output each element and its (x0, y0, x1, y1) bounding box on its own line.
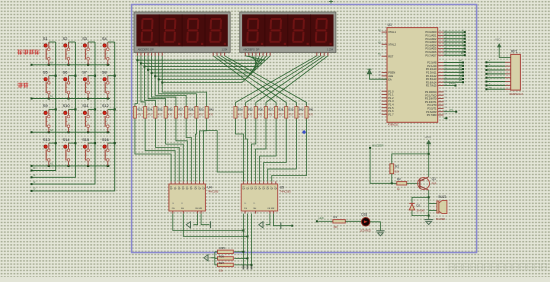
resistor R36 (segment bank B) (254, 107, 263, 119)
svg-text:buzzer: buzzer (449, 82, 456, 85)
push button S6 (63, 70, 76, 99)
svg-text:BUZZER: BUZZER (372, 143, 383, 147)
svg-text:R33: R33 (137, 108, 142, 112)
svg-text:LED-RED: LED-RED (360, 230, 371, 233)
push button S3 (82, 36, 95, 65)
svg-text:R39: R39 (199, 108, 204, 112)
resistor R36 (segment bank A) (164, 107, 173, 119)
no-connect marker (blue diamond) (302, 130, 306, 134)
svg-text:VCC: VCC (495, 39, 500, 42)
svg-text:S16: S16 (102, 137, 109, 142)
IC U4 74HC595 (169, 181, 219, 213)
svg-text:R34: R34 (238, 108, 243, 112)
microcontroller U1 AT89C51 (387, 23, 438, 127)
resistor R34 (segment bank B) (234, 107, 243, 119)
svg-text:S15: S15 (82, 137, 89, 142)
wire: flyback branch (412, 197, 429, 215)
wire: Q1 emitter to VCC rail (428, 154, 430, 177)
svg-text:DS: DS (172, 208, 176, 210)
svg-text:S6: S6 (63, 70, 68, 75)
wire group: DS1 segment verticals with bus junctions (135, 56, 207, 107)
label: reset (chinese, red) (18, 83, 29, 88)
svg-text:SH: SH (181, 208, 184, 210)
LED D18 (360, 212, 371, 232)
wire group: P0 port nets to segment drivers (444, 29, 466, 56)
resistor pack RP1 RESPACK-8 (510, 50, 524, 97)
push button S15 (82, 137, 95, 166)
push button S13 (43, 137, 56, 166)
push button S4 (102, 36, 115, 65)
svg-text:74HC595: 74HC595 (280, 190, 292, 194)
wire+ground: U5 OE (259, 214, 270, 228)
resistor R40 (segment bank A) (205, 107, 214, 119)
net labels at XTAL/RST pins (378, 30, 382, 56)
wire (318, 220, 333, 222)
svg-text:P3.7/RD: P3.7/RD (427, 113, 437, 117)
svg-text:Q1: Q1 (432, 177, 436, 181)
svg-text:R38: R38 (278, 108, 283, 112)
svg-text:P1.7: P1.7 (388, 112, 394, 116)
svg-text:R25: R25 (220, 246, 226, 250)
svg-text:S7: S7 (82, 70, 87, 75)
VCC power flag for RP1 (495, 39, 510, 58)
wire: buzzer feeds (429, 204, 437, 211)
svg-text:RESPACK-8: RESPACK-8 (510, 93, 524, 96)
resistor R35 (segment bank A) (154, 107, 163, 119)
transistor Q1 (PNP) (418, 177, 437, 190)
wire group: bank B bottoms staircase to U5 outputs (236, 119, 307, 182)
svg-text:D18: D18 (361, 212, 367, 216)
wire: LED net stub (444, 109, 458, 112)
net terminal: BUZZER from MCU (369, 143, 383, 149)
wire group: P2 port nets (444, 60, 464, 84)
ground for buzzer (425, 220, 433, 225)
svg-text:P0.7/AD7: P0.7/AD7 (425, 53, 437, 57)
svg-text:R1: R1 (333, 215, 337, 219)
wire+power bar: U4 MR (201, 214, 210, 229)
buzzer BUZ1 (436, 195, 447, 221)
U1 left pins with numbers (378, 30, 396, 116)
wire (370, 149, 397, 184)
svg-text:RST: RST (388, 54, 394, 58)
wire group: segment bus horizontals (DS1 to DS2) (137, 60, 265, 82)
wire: U5 control verticals to net labels (243, 214, 253, 270)
svg-text:1 234: 1 234 (221, 48, 227, 52)
wire group: bank A bottoms staircase to U4 outputs (135, 119, 207, 182)
resistor R39 (segment bank A) (195, 107, 204, 119)
sheet border (blue rectangle) (132, 5, 477, 253)
svg-text:300: 300 (333, 226, 338, 229)
svg-text:D2: D2 (416, 204, 420, 208)
wire: U4 DS control bus (lower horizontal) (173, 214, 245, 232)
resistor R39 (segment bank B) (285, 107, 294, 119)
svg-text:10k: 10k (219, 269, 224, 273)
svg-text:EA: EA (388, 77, 392, 81)
svg-text:BUZ1: BUZ1 (439, 195, 447, 199)
push button S9 (43, 103, 56, 132)
resistor R41 (segment bank B) (305, 107, 314, 119)
resistor R2 (397, 177, 407, 191)
wire: BUZZER net stub (444, 82, 457, 86)
U1 right pins with numbers (425, 30, 448, 117)
resistor R25 (218, 246, 245, 254)
IC U5 74HC595 (241, 181, 291, 213)
wire: R25-R27 common left tie (211, 252, 218, 265)
svg-text:S12: S12 (102, 103, 109, 108)
wire (407, 182, 419, 184)
svg-text:1 234: 1 234 (327, 48, 333, 52)
7-segment display DS1 (4-digit, left) (134, 12, 230, 53)
svg-text:U5: U5 (280, 185, 284, 189)
push button S8 (102, 70, 115, 99)
wire group: keypad row nets h0-h3 (31, 62, 111, 168)
svg-text:R34: R34 (147, 108, 152, 112)
wire (370, 222, 380, 231)
wire group: DS2 digit-select fan to bank B (236, 56, 328, 107)
svg-text:R2: R2 (397, 177, 401, 181)
net terminal: LED drive from MCU (316, 216, 324, 222)
wire group: RP1 input nets (485, 60, 510, 90)
resistor R27 (218, 261, 253, 273)
resistor R37 (segment bank B) (264, 107, 273, 119)
svg-text:S5: S5 (43, 70, 48, 75)
push button S10 (63, 103, 76, 132)
svg-text:R26: R26 (219, 254, 225, 258)
resistor R34 (segment bank A) (144, 107, 153, 119)
svg-text:S4: S4 (102, 36, 108, 41)
svg-text:R41: R41 (309, 108, 314, 112)
svg-text:S8: S8 (102, 70, 107, 75)
svg-text:XTAL2: XTAL2 (388, 42, 396, 46)
+VCC power flag (424, 136, 431, 154)
svg-text:S13: S13 (43, 137, 50, 142)
resistor R26 (218, 254, 249, 260)
push button S1 (43, 36, 56, 65)
DS2 pin stubs (245, 53, 328, 56)
svg-text:R3: R3 (395, 164, 399, 168)
resistor R38 (segment bank B) (275, 107, 284, 119)
svg-text:PNP: PNP (432, 184, 437, 186)
label: start/pause (chinese, red) (18, 50, 40, 55)
svg-text:R38: R38 (188, 108, 193, 112)
svg-text:R39: R39 (289, 108, 294, 112)
svg-text:BUZZER: BUZZER (436, 219, 446, 221)
svg-text:S9: S9 (43, 103, 48, 108)
svg-text:S11: S11 (82, 103, 89, 108)
svg-text:74HC595: 74HC595 (207, 190, 219, 194)
svg-text:R40: R40 (299, 108, 304, 112)
svg-text:SH: SH (253, 208, 256, 210)
svg-text:RP1: RP1 (511, 50, 518, 54)
wire: R3 top to VCC rail (392, 153, 430, 164)
power flag at sheet top (329, 0, 333, 4)
resistor R3 (390, 164, 400, 174)
svg-text:R36: R36 (258, 108, 263, 112)
push button S7 (82, 70, 95, 99)
svg-text:R27: R27 (219, 261, 225, 265)
svg-text:1N4148: 1N4148 (416, 210, 425, 212)
svg-text:R36: R36 (168, 108, 173, 112)
resistor R35 (segment bank B) (244, 107, 253, 119)
push button S14 (63, 137, 76, 166)
push button S11 (82, 103, 95, 132)
svg-text:R40: R40 (209, 108, 214, 112)
wire+power: EA tie high (367, 69, 387, 79)
wire: R3 bottom (391, 174, 393, 184)
svg-text:R35: R35 (158, 108, 163, 112)
svg-text:XTAL1: XTAL1 (388, 30, 396, 34)
wire group: DS2 segment diagonals joining bus (242, 56, 270, 83)
diode D2 1N4148 (409, 203, 425, 212)
svg-text:S14: S14 (63, 137, 71, 142)
svg-text:R35: R35 (248, 108, 253, 112)
svg-text:OE MR: OE MR (267, 208, 275, 210)
svg-text:AT89C51: AT89C51 (388, 123, 399, 127)
resistor R1 (333, 215, 345, 229)
wire: U4 SH_CP control bus (183, 214, 248, 238)
wire group: DS1 digit-select fan to bank B (213, 56, 306, 107)
wire (345, 220, 362, 222)
wire+ground: U4 OE (186, 214, 197, 228)
svg-text:DS: DS (244, 208, 248, 210)
push button S16 (102, 137, 115, 166)
decorative: none (faint watermark) (449, 264, 547, 270)
svg-text:ABCDEFG DP: ABCDEFG DP (138, 48, 154, 52)
svg-text:+VCC: +VCC (424, 136, 431, 139)
push button S5 (43, 70, 56, 99)
wire group: keypad column nets l0-l3 (31, 42, 116, 192)
svg-text:U4: U4 (207, 185, 211, 189)
wire: P3.7 stub (444, 117, 448, 119)
svg-text:ABCDEFG DP: ABCDEFG DP (243, 48, 259, 52)
resistor R37 (segment bank A) (174, 107, 183, 119)
svg-text:LED: LED (319, 216, 324, 220)
7-segment display DS2 (4-digit, right) (240, 12, 336, 53)
push button S12 (102, 103, 115, 132)
svg-text:U1: U1 (388, 23, 392, 27)
ground for R25-R27 tie (204, 255, 208, 261)
svg-text:R37: R37 (178, 108, 183, 112)
svg-text:S10: S10 (63, 103, 71, 108)
svg-text:S2: S2 (63, 36, 68, 41)
svg-text:S3: S3 (82, 36, 87, 41)
push button S2 (63, 36, 76, 65)
svg-text:OE MR: OE MR (195, 208, 203, 210)
DS1 pin stubs (137, 53, 224, 56)
ground for D18 (376, 231, 384, 236)
svg-text:R37: R37 (268, 108, 273, 112)
wire+power bar: U5 MR with terminal (273, 214, 293, 230)
resistor R38 (segment bank A) (185, 107, 194, 119)
resistor R40 (segment bank B) (295, 107, 304, 119)
wire: U4 Q7' cascade to U5 (204, 131, 244, 182)
svg-text:S1: S1 (43, 36, 48, 41)
wire: Q1 collector node (428, 190, 430, 219)
resistor R33 (segment bank A) (133, 107, 142, 119)
svg-text:P2.7/A15: P2.7/A15 (426, 84, 437, 88)
